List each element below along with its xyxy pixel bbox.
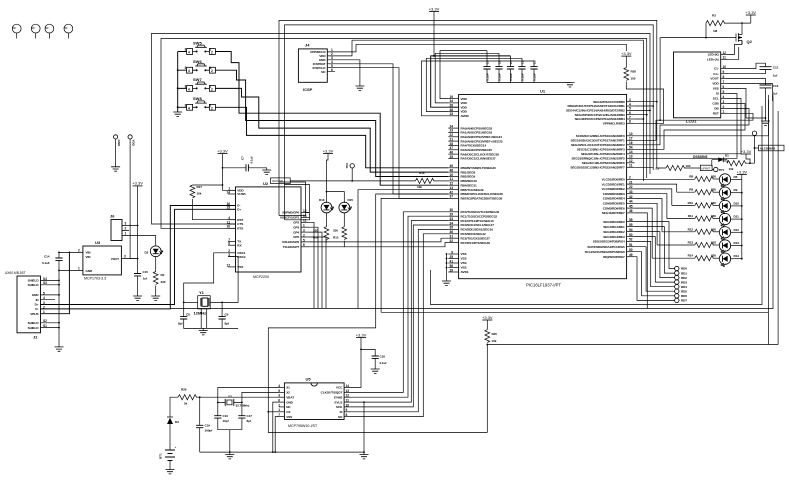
ground C15: [133, 296, 142, 300]
svg-text:13: 13: [346, 389, 350, 393]
svg-text:SHIELD: SHIELD: [28, 279, 40, 283]
svg-text:GND: GND: [86, 269, 93, 273]
svg-text:33: 33: [449, 217, 453, 221]
svg-text:330: 330: [161, 280, 166, 284]
svg-text:OSC2: OSC2: [237, 255, 245, 259]
wire J2 VBUS up to VIN: [41, 252, 70, 313]
svg-text:8: 8: [629, 120, 631, 124]
svg-text:2: 2: [211, 51, 213, 55]
wire bus top outer loop: [152, 33, 651, 224]
resistor R10 330 + LED D10: [672, 200, 743, 213]
ground crystal caps: [225, 455, 234, 459]
svg-text:36: 36: [449, 230, 453, 234]
svg-text:10: 10: [346, 403, 350, 407]
svg-text:RC1/T1OSCI/CCP2/SEG32: RC1/T1OSCI/CCP2/SEG32: [461, 214, 498, 218]
svg-text:GP5: GP5: [293, 235, 299, 239]
power +3.3V LEDs D15 D16: [323, 148, 334, 153]
capacitor C16: [361, 349, 375, 356]
svg-text:CLKOUT/SQOT: CLKOUT/SQOT: [321, 391, 343, 395]
svg-text:15: 15: [449, 112, 453, 116]
svg-text:R14: R14: [688, 254, 694, 258]
MCU U1 PIC16LF1937: [459, 89, 627, 288]
resistor R11 330 + LED D11: [667, 213, 743, 226]
power +3.3V MCLR pullup: [621, 51, 632, 56]
svg-text:LCD1: LCD1: [686, 119, 697, 124]
wire switch row2 staircase: [215, 70, 448, 176]
svg-text:U5: U5: [306, 377, 312, 382]
svg-text:AVSS: AVSS: [461, 270, 469, 274]
svg-text:34: 34: [449, 221, 453, 225]
resistor R15 330: [343, 213, 345, 227]
svg-text:330: 330: [333, 229, 338, 233]
wire R25 net along right: [487, 344, 778, 346]
svg-text:43: 43: [629, 190, 633, 194]
wire J2 D- to U2: [41, 206, 236, 309]
svg-text:41: 41: [449, 259, 453, 263]
svg-text:VPP/MCLR/RE3: VPP/MCLR/RE3: [603, 122, 625, 126]
svg-text:COM3/RD6/RE6: COM3/RD6/RE6: [603, 206, 625, 210]
svg-text:VLCDBIAS: VLCDBIAS: [760, 146, 775, 150]
svg-text:SEG41/RD7/RE7: SEG41/RD7/RE7: [602, 211, 625, 215]
capacitor C12: [760, 67, 772, 70]
wire VBAT row: [196, 396, 279, 398]
svg-text:14: 14: [346, 384, 350, 388]
svg-text:IRQ/SDOP/RG7: IRQ/SDOP/RG7: [603, 255, 625, 259]
svg-text:RD7: RD7: [681, 299, 687, 303]
svg-text:2: 2: [278, 403, 280, 407]
svg-text:37: 37: [449, 195, 453, 199]
svg-text:SW8: SW8: [193, 96, 202, 101]
svg-text:D15: D15: [348, 198, 354, 202]
svg-text:VCC: VCC: [336, 386, 343, 390]
resistor R5 100: [635, 166, 666, 169]
wire VIN rail: [59, 252, 77, 258]
svg-text:R17: R17: [197, 185, 203, 189]
svg-text:25: 25: [449, 155, 453, 159]
svg-text:Y3: Y3: [228, 394, 232, 398]
wire switch row4 staircase: [215, 107, 448, 168]
power +3.3V near U2: [217, 148, 228, 153]
svg-text:GND: GND: [117, 140, 121, 147]
svg-text:C1+: C1+: [713, 72, 719, 76]
svg-text:LED-(K): LED-(K): [708, 53, 719, 57]
wire AVDD feed: [422, 61, 535, 116]
wire TP3 down: [754, 135, 756, 163]
svg-text:VSS: VSS: [286, 415, 292, 419]
svg-text:AVDD: AVDD: [461, 114, 470, 118]
power +3.3V top center: [429, 6, 440, 11]
svg-text:C1-: C1-: [714, 67, 719, 71]
U1 left pins RB0-RB7: [448, 167, 458, 169]
wire VDD feed 2: [435, 53, 499, 103]
svg-text:4: 4: [188, 51, 190, 55]
wire bus line T1: [279, 20, 657, 215]
svg-text:SEG0/RG0/RE0: SEG0/RG0/RE0: [603, 220, 625, 224]
svg-text:9: 9: [451, 250, 453, 254]
wire J4 pin1 MCLR: [335, 44, 356, 52]
svg-text:32.768khz: 32.768khz: [236, 403, 250, 407]
svg-text:2: 2: [211, 106, 213, 110]
resistor R2 330: [155, 257, 157, 272]
svg-text:VSS: VSS: [461, 257, 467, 261]
svg-text:VSS: VSS: [461, 261, 467, 265]
svg-text:RC2/CPS14/P1A/SEG13: RC2/CPS14/P1A/SEG13: [461, 219, 494, 223]
wire LCD SCL: [635, 99, 741, 154]
svg-text:D14: D14: [734, 254, 740, 258]
svg-text:2: 2: [629, 176, 631, 180]
svg-text:100pf: 100pf: [205, 429, 214, 433]
net label VLCDBIAS: [755, 145, 785, 151]
LED D15: [339, 202, 352, 213]
svg-text:RD5: RD5: [681, 289, 687, 293]
wire U5 CLKOUT up: [351, 212, 449, 393]
svg-text:31: 31: [449, 235, 453, 239]
capacitor C17 8pf: [238, 416, 245, 418]
wire U2 OSC2 to crystal: [210, 257, 238, 303]
test point TP1: [714, 167, 718, 171]
power +3.3V at R1: [741, 149, 752, 154]
svg-text:C15: C15: [143, 270, 149, 274]
svg-text:RB2/SEG9: RB2/SEG9: [461, 175, 476, 179]
svg-text:32: 32: [449, 239, 453, 243]
svg-text:RB4/SEG11: RB4/SEG11: [461, 183, 477, 187]
ground crystal Y1: [202, 328, 204, 330]
svg-text:6: 6: [331, 68, 333, 72]
svg-text:D8: D8: [734, 175, 738, 179]
svg-text:SHIELD: SHIELD: [28, 326, 40, 330]
svg-text:16: 16: [629, 141, 633, 145]
svg-text:BT1: BT1: [159, 453, 163, 459]
svg-text:100: 100: [686, 164, 691, 168]
svg-text:C9: C9: [225, 313, 229, 317]
ground below switches: [173, 112, 182, 116]
svg-text:11: 11: [629, 164, 633, 168]
resistor R16 330: [326, 213, 328, 227]
svg-text:C17: C17: [247, 414, 253, 418]
crystal Y3 32.768kHz: [218, 399, 242, 406]
svg-text:44: 44: [629, 200, 633, 204]
wires GP2-GP5 down: [309, 222, 326, 308]
svg-text:35: 35: [449, 226, 453, 230]
svg-text:21: 21: [449, 137, 453, 141]
capacitor C13: [760, 85, 772, 88]
svg-text:Y1: Y1: [199, 290, 205, 295]
wire J4 pin5 ICSPCLK: [335, 68, 448, 199]
svg-text:3: 3: [124, 255, 126, 259]
svg-text:1: 1: [125, 232, 127, 236]
svg-text:2: 2: [211, 69, 213, 73]
wire bus second loop: [161, 39, 647, 229]
svg-text:53: 53: [629, 233, 633, 237]
svg-text:11: 11: [346, 399, 350, 403]
svg-text:42: 42: [629, 195, 633, 199]
svg-text:GP2: GP2: [293, 221, 299, 225]
svg-text:SW6: SW6: [193, 59, 202, 64]
wire C13 to ground: [765, 88, 767, 121]
svg-text:S1: S1: [655, 167, 659, 171]
wire U5 loop right part: [381, 198, 448, 312]
svg-text:4: 4: [188, 87, 190, 91]
svg-text:J4: J4: [305, 43, 310, 48]
svg-text:100: 100: [631, 77, 636, 81]
svg-text:10k: 10k: [492, 339, 497, 343]
svg-text:SEG19/SDA2/C3OUT/CPS17/AN17/RF: SEG19/SDA2/C3OUT/CPS17/AN17/RF1: [571, 139, 625, 143]
svg-text:6: 6: [723, 85, 725, 89]
ground U5: [360, 455, 369, 459]
svg-text:RA3/AN3/CPS3/VREF+/SEG35: RA3/AN3/CPS3/VREF+/SEG35: [461, 139, 503, 143]
svg-text:TXLED/GP7: TXLED/GP7: [283, 245, 300, 249]
svg-text:SEG3/RG3/RE3: SEG3/RG3/RE3: [603, 235, 625, 239]
capacitor C15: [134, 274, 141, 276]
svg-text:D13: D13: [734, 241, 740, 245]
svg-text:3: 3: [185, 84, 187, 88]
svg-text:0.1uF: 0.1uF: [533, 73, 537, 81]
svg-text:330: 330: [711, 175, 716, 179]
svg-text:23: 23: [449, 129, 453, 133]
svg-text:VSS: VSS: [461, 252, 467, 256]
wire GP1 to bus T2: [285, 185, 310, 220]
svg-text:58: 58: [629, 218, 633, 222]
ground C16: [371, 369, 380, 373]
svg-text:46: 46: [449, 150, 453, 154]
svg-text:330: 330: [711, 241, 716, 245]
svg-text:COM0/RD3/RE3: COM0/RD3/RE3: [603, 192, 625, 196]
svg-text:R11: R11: [688, 214, 694, 218]
svg-text:49: 49: [629, 253, 633, 257]
svg-text:VLCD2/RD1/RE1: VLCD2/RD1/RE1: [602, 182, 625, 186]
resistor R14 330 + LED D14: [652, 253, 742, 266]
wire bus line T5: [352, 40, 643, 181]
svg-text:4: 4: [188, 106, 190, 110]
svg-text:46: 46: [629, 209, 633, 213]
svg-text:3: 3: [185, 103, 187, 107]
svg-text:0.1uF: 0.1uF: [509, 73, 513, 81]
wire ground collector: [58, 260, 60, 347]
resistor R26 5k: [178, 395, 197, 400]
svg-text:D2: D2: [145, 251, 149, 255]
capacitor C10 10pf: [214, 416, 221, 418]
svg-text:RA7/OSC1/CLKIN/SEG37: RA7/OSC1/CLKIN/SEG37: [461, 157, 496, 161]
svg-text:RBH3/C3OUT/CPS15/AN15/TX2/CK2/: RBH3/C3OUT/CPS15/AN15/TX2/CK2/RB1: [567, 104, 625, 108]
svg-text:VSS: VSS: [713, 87, 719, 91]
svg-text:R8: R8: [689, 175, 693, 179]
svg-text:D11: D11: [734, 215, 740, 219]
svg-text:SEG20/SCL2/C1OUT/CPS18/AN18/RF: SEG20/SCL2/C1OUT/CPS18/AN18/RF2: [571, 143, 625, 147]
svg-text:RD2: RD2: [681, 276, 687, 280]
RD0-RD7 header pads: [675, 266, 679, 270]
svg-text:SEG22/C2IN+/CPS20/AN20/RF4: SEG22/C2IN+/CPS20/AN20/RF4: [581, 152, 625, 156]
resistor R9 330 + LED D9: [677, 187, 743, 200]
svg-text:VDD: VDD: [132, 140, 136, 147]
svg-text:330: 330: [313, 229, 318, 233]
ground C7: [262, 170, 271, 174]
svg-text:SEG25/SS2/C123IN3-/CPS23/AN23/: SEG25/SS2/C123IN3-/CPS23/AN23/RF7: [570, 166, 625, 170]
svg-text:1: 1: [303, 224, 305, 228]
svg-text:SHIELD: SHIELD: [28, 283, 40, 287]
wires U1 group D to RD pads: [635, 222, 675, 269]
wire J2 D+ to U2: [41, 209, 236, 304]
svg-text:RA6/OSC2/CLKOUT/SEG36: RA6/OSC2/CLKOUT/SEG36: [461, 152, 500, 156]
U1 right pins group B RF: [627, 135, 635, 137]
svg-text:D-: D-: [35, 307, 38, 311]
svg-text:330: 330: [711, 227, 716, 231]
svg-text:GND: GND: [32, 293, 39, 297]
svg-text:VSS: VSS: [461, 266, 467, 270]
svg-text:2: 2: [125, 227, 127, 231]
svg-text:MCP795W10-I/ST: MCP795W10-I/ST: [288, 424, 318, 428]
resistor R17 10k: [190, 185, 195, 198]
svg-text:330: 330: [711, 201, 716, 205]
switch S2: [185, 59, 216, 73]
svg-text:C14: C14: [44, 255, 50, 259]
svg-text:R12: R12: [688, 227, 694, 231]
wire bottom bus inner: [381, 100, 768, 345]
svg-text:17: 17: [226, 263, 230, 267]
resistor R12 330 + LED D12: [662, 227, 743, 240]
wire D1 anode down: [711, 160, 713, 167]
wire J4 pin4 ICSPDAT: [335, 64, 448, 194]
ground U1 VSS: [442, 281, 451, 285]
resistor R8 330 + LED D8: [689, 174, 742, 187]
ground LCD: [761, 121, 770, 125]
svg-text:6: 6: [303, 243, 305, 247]
capacitor C8 8pf: [180, 317, 187, 319]
svg-text:SCP2/SDI2/SDA2/P1C/RG5: SCP2/SDI2/SDA2/P1C/RG5: [587, 245, 625, 249]
svg-text:5: 5: [723, 90, 725, 94]
svg-text:COM2/RD5/RE5: COM2/RD5/RE5: [603, 202, 625, 206]
wire U5 EVHB up: [351, 216, 449, 397]
svg-text:COM1/RD4/RE4: COM1/RD4/RE4: [603, 197, 625, 201]
svg-text:5: 5: [303, 238, 305, 242]
capacitor C1: [507, 56, 514, 83]
IC U2 MCP2200: [226, 181, 309, 279]
svg-text:R9: R9: [689, 188, 693, 192]
wire switch row3 staircase: [215, 88, 448, 172]
svg-text:330: 330: [711, 188, 716, 192]
svg-text:VDD: VDD: [712, 82, 719, 86]
svg-text:RD1: RD1: [681, 271, 687, 275]
svg-text:RC7/RX1/DT1/SEG28: RC7/RX1/DT1/SEG28: [461, 241, 491, 245]
connector J2 USB: [5, 271, 60, 340]
svg-text:R25: R25: [492, 332, 498, 336]
ground R2: [151, 296, 160, 300]
mounting hole MH3: [45, 24, 54, 38]
test point TP3: [752, 131, 756, 135]
svg-text:8: 8: [346, 413, 348, 417]
svg-text:J2: J2: [33, 335, 38, 340]
svg-text:10: 10: [449, 173, 453, 177]
svg-text:RA1/AN1/CPS1/SEG18: RA1/AN1/CPS1/SEG18: [461, 131, 493, 135]
wires U1 group C to LED rows: [635, 178, 695, 180]
wire switch left rail: [178, 52, 187, 113]
svg-text:GND: GND: [286, 400, 293, 404]
wire cap bottoms to ground: [218, 418, 242, 452]
capacitor C19 100pf: [199, 397, 201, 425]
svg-text:UFRXT: UFRXT: [701, 166, 711, 170]
svg-text:10k: 10k: [417, 185, 422, 189]
svg-text:SCL: SCL: [713, 97, 719, 101]
wire switch row1 staircase: [215, 52, 448, 186]
svg-text:54: 54: [629, 146, 633, 150]
svg-text:12: 12: [723, 51, 727, 55]
switch S4: [185, 96, 216, 110]
svg-text:X2: X2: [286, 391, 290, 395]
test point TP2: [350, 164, 354, 168]
wire loop around U5 section: [268, 194, 487, 433]
svg-text:3: 3: [723, 100, 725, 104]
net label UFRXT: [700, 165, 712, 170]
wire U5 EVLS junction down to ground: [351, 221, 449, 403]
wire VDD feed 1: [440, 51, 487, 99]
svg-text:R16: R16: [313, 236, 319, 240]
svg-text:CS: CS: [286, 410, 290, 414]
svg-text:RD4: RD4: [681, 285, 687, 289]
svg-text:8: 8: [228, 242, 230, 246]
svg-text:12: 12: [346, 394, 350, 398]
svg-text:PIC16LF1937-I/PT: PIC16LF1937-I/PT: [526, 283, 561, 288]
svg-text:R15: R15: [333, 236, 339, 240]
power +3.3V regulator out: [132, 181, 143, 186]
svg-text:D16: D16: [319, 198, 325, 202]
svg-text:U2: U2: [263, 181, 269, 186]
svg-text:RD0: RD0: [681, 267, 687, 271]
wire cap bank ground rail: [487, 82, 570, 84]
power +3.3V LED rail: [737, 169, 748, 174]
svg-text:13: 13: [629, 155, 633, 159]
svg-text:5k: 5k: [184, 402, 188, 406]
svg-text:VLCD1/RD0/RE0: VLCD1/RD0/RE0: [602, 178, 625, 182]
wire VDD feed 3 (main): [431, 56, 511, 107]
switch S1: [185, 40, 216, 54]
svg-text:TP1: TP1: [719, 168, 725, 172]
svg-text:7: 7: [723, 80, 725, 84]
svg-text:10: 10: [226, 225, 230, 229]
svg-text:SI: SI: [716, 92, 719, 96]
svg-text:RD3: RD3: [681, 280, 687, 284]
svg-text:SEG24/C1IN-/CPS22/AN22/RF6: SEG24/C1IN-/CPS22/AN22/RF6: [582, 161, 625, 165]
svg-text:11: 11: [723, 56, 727, 60]
U1 left pins VSS: [448, 253, 458, 255]
svg-text:C8: C8: [186, 313, 190, 317]
svg-text:48: 48: [449, 168, 453, 172]
svg-text:25: 25: [449, 255, 453, 259]
svg-text:0.1uF: 0.1uF: [498, 73, 502, 81]
svg-text:330: 330: [711, 214, 716, 218]
svg-text:R3: R3: [712, 14, 716, 18]
wire GP6 to U1 RC6: [327, 238, 449, 242]
svg-text:30: 30: [449, 208, 453, 212]
svg-text:SDO2/SEG34/P3B/RG4: SDO2/SEG34/P3B/RG4: [593, 240, 625, 244]
svg-text:J6: J6: [110, 214, 115, 219]
svg-text:4: 4: [188, 69, 190, 73]
capacitor C5: [483, 51, 490, 83]
svg-text:12: 12: [449, 182, 453, 186]
resistor R25 10k: [482, 315, 493, 320]
wire RB5 down: [358, 190, 448, 309]
resistor R1 10k pullup: [727, 161, 746, 166]
diode D3: [170, 397, 178, 417]
svg-text:11: 11: [303, 219, 307, 223]
svg-text:45: 45: [629, 204, 633, 208]
LCD module LCD1: [674, 51, 729, 124]
LED D2: [150, 246, 163, 257]
wire ground rail: [200, 451, 364, 453]
svg-text:SEG23/SRNQ/C1IN+/CPS21/AN21/RF: SEG23/SRNQ/C1IN+/CPS21/AN21/RF5: [572, 157, 626, 161]
svg-text:52: 52: [629, 238, 633, 242]
wire U2 OSC1 to crystal: [184, 253, 228, 317]
U1 right pins group A: [627, 101, 635, 103]
wire VOUT to C13: [728, 79, 766, 86]
